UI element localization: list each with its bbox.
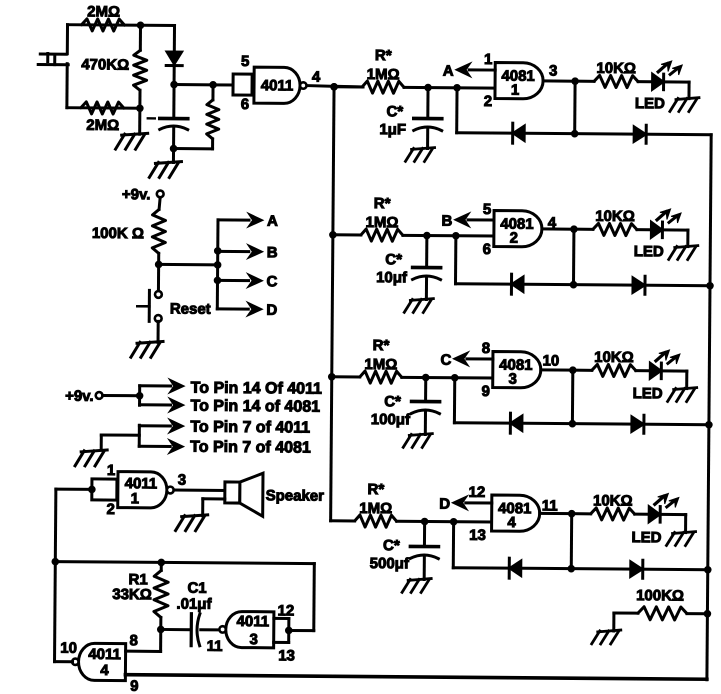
svg-text:10KΩ: 10KΩ — [593, 492, 633, 509]
svg-text:11: 11 — [207, 638, 223, 655]
svg-text:.01μf: .01μf — [176, 596, 212, 613]
svg-text:C*: C* — [386, 103, 403, 120]
svg-text:To Pin 14 of 4081: To Pin 14 of 4081 — [190, 398, 320, 416]
svg-text:1: 1 — [107, 462, 115, 479]
svg-text:R*: R* — [375, 47, 392, 64]
svg-text:2MΩ: 2MΩ — [86, 117, 119, 134]
svg-text:LED: LED — [633, 385, 663, 402]
svg-text:A: A — [443, 63, 454, 80]
svg-text:500μf: 500μf — [370, 555, 410, 572]
svg-text:LED: LED — [634, 243, 664, 260]
svg-text:C*: C* — [384, 393, 401, 410]
svg-text:13: 13 — [469, 527, 486, 544]
svg-text:LED: LED — [635, 95, 665, 112]
svg-text:+9v.: +9v. — [65, 388, 94, 405]
svg-text:1μF: 1μF — [379, 121, 406, 138]
svg-text:1: 1 — [131, 490, 139, 507]
svg-text:To Pin 7 of 4081: To Pin 7 of 4081 — [190, 439, 311, 457]
svg-text:3: 3 — [549, 62, 557, 79]
svg-text:A: A — [267, 213, 278, 230]
svg-text:1MΩ: 1MΩ — [367, 66, 400, 83]
svg-text:8: 8 — [482, 340, 490, 357]
svg-text:B: B — [442, 213, 453, 230]
svg-text:13: 13 — [278, 647, 295, 664]
svg-text:3: 3 — [249, 631, 257, 648]
svg-text:100K Ω: 100K Ω — [92, 225, 144, 242]
svg-text:C*: C* — [383, 537, 400, 554]
svg-text:100μf: 100μf — [371, 411, 411, 428]
svg-text:4011: 4011 — [261, 77, 294, 94]
svg-text:2: 2 — [484, 93, 492, 110]
svg-text:1MΩ: 1MΩ — [364, 356, 397, 373]
svg-text:3: 3 — [178, 472, 186, 489]
svg-text:C: C — [440, 352, 451, 369]
svg-text:2: 2 — [510, 230, 518, 247]
svg-text:12: 12 — [468, 484, 485, 501]
svg-text:B: B — [267, 244, 278, 261]
svg-text:D: D — [439, 496, 450, 513]
svg-text:100KΩ: 100KΩ — [636, 587, 684, 604]
svg-text:470KΩ: 470KΩ — [81, 56, 129, 73]
svg-text:LED: LED — [631, 529, 661, 546]
svg-text:4: 4 — [100, 662, 109, 679]
svg-text:R*: R* — [374, 195, 391, 212]
svg-text:33KΩ: 33KΩ — [112, 586, 152, 603]
svg-text:10: 10 — [60, 640, 77, 657]
svg-text:Speaker: Speaker — [266, 487, 325, 504]
svg-text:10KΩ: 10KΩ — [596, 60, 636, 77]
svg-text:5: 5 — [483, 201, 491, 218]
svg-text:9: 9 — [130, 678, 138, 694]
svg-text:2MΩ: 2MΩ — [87, 3, 120, 20]
svg-text:6: 6 — [483, 241, 491, 258]
svg-text:5: 5 — [241, 53, 249, 70]
svg-text:10μf: 10μf — [376, 269, 408, 286]
svg-text:R*: R* — [367, 481, 384, 498]
svg-text:1MΩ: 1MΩ — [365, 214, 398, 231]
svg-text:10KΩ: 10KΩ — [594, 349, 634, 366]
svg-text:6: 6 — [241, 96, 249, 113]
svg-text:4011: 4011 — [236, 613, 269, 630]
svg-text:1: 1 — [484, 51, 492, 68]
svg-text:8: 8 — [129, 632, 137, 649]
svg-text:3: 3 — [509, 371, 517, 388]
svg-text:4: 4 — [507, 514, 516, 531]
svg-text:+9v.: +9v. — [122, 186, 151, 203]
svg-text:10: 10 — [542, 352, 559, 369]
svg-text:C: C — [267, 273, 278, 290]
svg-text:9: 9 — [481, 383, 489, 400]
svg-text:2: 2 — [106, 501, 114, 518]
svg-text:1MΩ: 1MΩ — [359, 500, 392, 517]
svg-text:4: 4 — [312, 69, 321, 86]
svg-text:C*: C* — [385, 251, 402, 268]
svg-text:4011: 4011 — [88, 646, 121, 663]
svg-text:R*: R* — [373, 337, 390, 354]
svg-text:C1: C1 — [187, 580, 206, 597]
svg-text:To Pin 7 of 4011: To Pin 7 of 4011 — [190, 419, 310, 437]
svg-text:To Pin 14 Of 4011: To Pin 14 Of 4011 — [191, 380, 323, 398]
svg-text:Reset: Reset — [170, 301, 211, 318]
svg-text:4011: 4011 — [125, 475, 158, 492]
svg-text:10KΩ: 10KΩ — [595, 208, 635, 225]
svg-text:D: D — [266, 302, 277, 319]
svg-text:1: 1 — [511, 82, 519, 99]
